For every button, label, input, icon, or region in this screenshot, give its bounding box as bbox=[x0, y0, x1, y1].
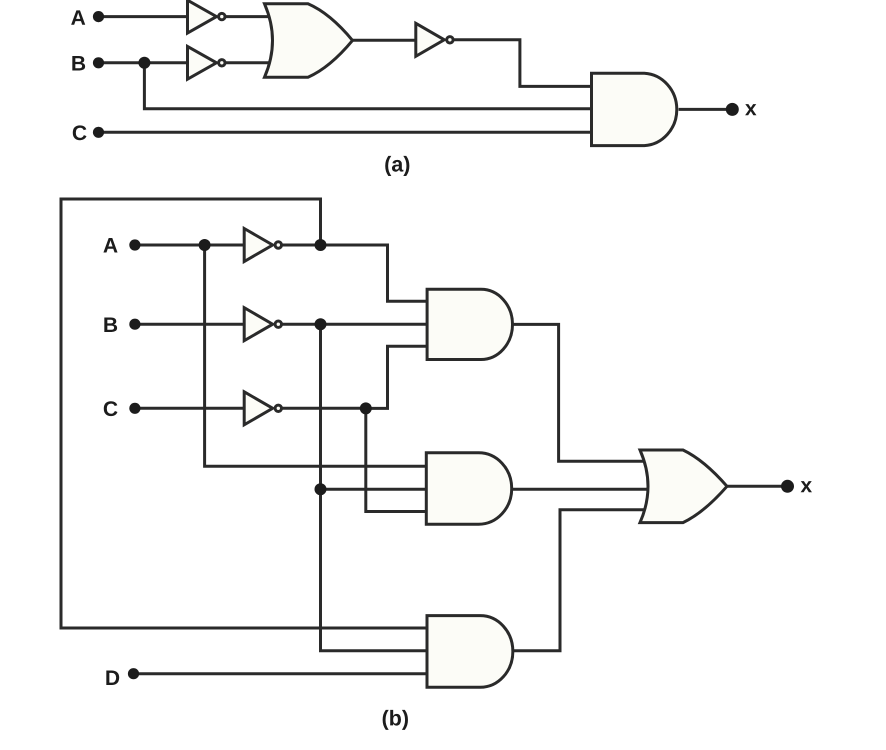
label B (b) bbox=[104, 318, 117, 332]
wire A input to inverter 1a bbox=[99, 15, 191, 18]
label x (a) bbox=[745, 104, 756, 115]
wire C' vertical down to AND2 bottom input bbox=[366, 408, 429, 511]
AND gate a bbox=[592, 73, 677, 145]
label A (a) bbox=[71, 10, 85, 24]
junction dot B' branch to AND2 (b) bbox=[315, 483, 327, 495]
label B (a) bbox=[72, 56, 85, 70]
inverter 3b (NOT gate on input C) bbox=[244, 392, 281, 425]
input terminal dot B (a) bbox=[93, 57, 104, 68]
inverter 1b (NOT gate on input A) bbox=[244, 229, 281, 262]
input terminal dot B (b) bbox=[129, 319, 140, 330]
wire AND2 output to OR gate b middle input bbox=[512, 488, 655, 491]
wire OR gate a output to inverter 3a bbox=[352, 39, 417, 42]
wire OR gate b output to node x bbox=[727, 485, 784, 488]
label A (b) bbox=[103, 238, 117, 252]
AND gate 3 (bottom) bbox=[427, 616, 513, 688]
wire inverter 1a output to OR gate a input bbox=[225, 15, 292, 18]
wire B branch: junction down and right to AND gate a middle input bbox=[144, 63, 596, 109]
wire inverter 2a output to OR gate a input bbox=[225, 61, 292, 64]
caption (a) bbox=[385, 156, 409, 176]
wire inverter 3a output right, down, right to AND gate a top input bbox=[453, 40, 596, 87]
inverter 3a (NOT gate on OR output) bbox=[416, 23, 453, 56]
label C (a) bbox=[73, 125, 87, 140]
inverter 2a (NOT gate on input B) bbox=[188, 46, 226, 79]
wire B' vertical down to AND3 middle input bbox=[321, 324, 432, 651]
input terminal dot C (b) bbox=[129, 403, 140, 414]
wire D input to AND3 bottom input bbox=[134, 672, 432, 675]
wire B input to inverter 2a bbox=[99, 61, 191, 64]
input terminal dot A (a) bbox=[93, 11, 104, 22]
label C (b) bbox=[104, 401, 118, 416]
inverter 1a (NOT gate on input A) bbox=[188, 0, 226, 33]
input terminal dot A (b) bbox=[129, 239, 140, 250]
label x (b) bbox=[801, 481, 812, 492]
wire C' junction right, up, right to AND1 bottom input bbox=[366, 346, 430, 408]
wire C input to AND gate a bottom input bbox=[99, 131, 597, 134]
inverter 2b (NOT gate on input B) bbox=[244, 308, 281, 341]
wire A tap: junction down to AND2 top input bbox=[205, 245, 429, 466]
AND gate 1 (top) bbox=[427, 289, 512, 359]
wire inverter 3b output to junction bbox=[282, 407, 366, 410]
wire outer loop: A' junction up, across top, down left side, right to AND3 top input bbox=[61, 199, 431, 628]
input terminal dot D (b) bbox=[128, 668, 139, 679]
wire C input to inverter 3b bbox=[135, 407, 247, 410]
output terminal dot x (a) bbox=[726, 103, 739, 116]
caption (b) bbox=[383, 710, 408, 730]
OR gate a bbox=[265, 4, 353, 77]
input terminal dot C (a) bbox=[93, 127, 104, 138]
junction dot B' (b) bbox=[315, 318, 327, 330]
wire AND gate a output to node x bbox=[679, 108, 730, 111]
wire inverter 1b output to junction bbox=[282, 244, 321, 247]
junction dot on B wire (a) bbox=[138, 57, 150, 69]
wire AND3 output right, up, right to OR gate b bottom input bbox=[513, 510, 655, 651]
wire inverter 2b output to AND1 middle input bbox=[282, 323, 431, 326]
wire A input to inverter 1b bbox=[135, 244, 247, 247]
junction dot A tap (b) bbox=[199, 239, 211, 251]
wire AND1 output right, down, right to OR gate b top input bbox=[513, 324, 656, 461]
wire B input to inverter 2b bbox=[135, 323, 247, 326]
wire B' branch to AND2 middle input bbox=[321, 488, 430, 491]
junction dot A' (b) bbox=[315, 239, 327, 251]
OR gate b bbox=[640, 450, 727, 523]
label D (b) bbox=[106, 671, 119, 685]
AND gate 2 (middle) bbox=[426, 453, 511, 524]
junction dot C' (b) bbox=[360, 402, 372, 414]
wire A' junction right, down, right to AND1 top input bbox=[321, 245, 431, 301]
output terminal dot x (b) bbox=[781, 480, 794, 493]
